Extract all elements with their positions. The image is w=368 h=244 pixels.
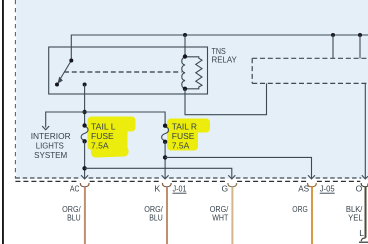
svg-text:TAIL L: TAIL L	[91, 121, 116, 131]
svg-text:YEL: YEL	[348, 212, 363, 222]
connector cup AC	[80, 183, 89, 187]
arrow into G	[228, 175, 235, 179]
node: coil bottom	[183, 87, 187, 91]
svg-text:LIGHTS: LIGHTS	[36, 141, 64, 151]
svg-text:RELAY: RELAY	[212, 55, 238, 65]
INTERIOR LIGHTS SYSTEM label	[31, 131, 71, 160]
connector cup G	[228, 183, 237, 187]
svg-text:BLU: BLU	[67, 212, 81, 222]
adjacent system dashed border	[15, 180, 360, 182]
node: K branch junction	[163, 155, 167, 159]
wire: switch output	[84, 85, 86, 126]
svg-text:FUSE: FUSE	[91, 131, 114, 141]
terminal labels	[70, 183, 363, 193]
J-01 underline	[173, 192, 187, 194]
svg-text:7.5A: 7.5A	[172, 141, 190, 151]
dashed module box	[252, 58, 368, 83]
wire: rail drop x360 to module	[359, 35, 361, 58]
arrow to interior lights	[42, 126, 49, 130]
wire ORG below AS	[311, 187, 313, 244]
system boundary panel (light blue)	[16, 0, 368, 179]
node: rail junction x333	[331, 33, 335, 37]
wire: TAIL R fuse down to K	[164, 142, 166, 178]
svg-text:INTERIOR: INTERIOR	[31, 131, 71, 141]
svg-text:L: L	[359, 228, 364, 238]
wire ORG/BLU below AC	[84, 187, 86, 244]
connector cup O	[361, 183, 368, 187]
system boundary dashed left border	[14, 0, 16, 179]
connector cup AS	[308, 183, 317, 187]
resistor in parallel with coil	[185, 57, 202, 89]
arrow into AC	[81, 175, 88, 179]
wire: rail drop x333 to module	[332, 35, 334, 58]
wire: branch to AS terminal	[165, 157, 311, 178]
relay switch contacts	[59, 61, 71, 81]
next module boundary line	[359, 241, 368, 243]
node: distribution junction	[82, 110, 86, 114]
fuse TAIL L	[81, 127, 88, 141]
relay coil (scalloped)	[182, 57, 185, 89]
J-05 underline	[320, 192, 335, 194]
node: rail junction x360	[358, 33, 362, 37]
wire: TAIL L fuse down to AC	[84, 141, 86, 178]
arrow into AS	[308, 175, 315, 179]
svg-text:AC: AC	[70, 183, 80, 193]
svg-text:FUSE: FUSE	[172, 131, 195, 141]
TNS relay box	[49, 47, 208, 94]
svg-text:BLU: BLU	[149, 212, 163, 222]
wire: to TAIL R fuse	[85, 112, 166, 126]
TAIL R FUSE 7.5A label	[172, 121, 197, 150]
svg-text:K: K	[155, 183, 161, 193]
wire ORG/WHT below G	[231, 187, 233, 244]
wire colour labels	[62, 204, 363, 223]
svg-text:O: O	[356, 183, 363, 193]
arrow into O	[362, 175, 368, 179]
node: coil top	[183, 54, 187, 58]
node: AC branch junction	[82, 166, 86, 170]
svg-text:J-01: J-01	[173, 183, 187, 193]
connector cup K	[162, 183, 171, 187]
wire ORG/BLU below K	[166, 187, 168, 244]
TAIL L FUSE 7.5A label	[91, 121, 116, 150]
connector cup L	[361, 238, 365, 241]
wire: top supply rail	[71, 35, 368, 61]
svg-text:7.5A: 7.5A	[91, 141, 109, 151]
svg-text:TAIL R: TAIL R	[172, 121, 197, 131]
svg-text:WHT: WHT	[212, 212, 228, 222]
wire BLK/YEL below O	[365, 187, 367, 238]
node: rail junction above coil	[183, 33, 187, 37]
highlighter TAIL R FUSE	[167, 119, 210, 151]
highlighter TAIL L FUSE	[88, 117, 136, 158]
svg-text:G: G	[221, 183, 228, 193]
svg-text:SYSTEM: SYSTEM	[34, 150, 67, 160]
svg-text:J-05: J-05	[320, 183, 335, 193]
TNS RELAY label	[212, 46, 238, 65]
wire: to interior lights system	[46, 112, 85, 128]
wire: rail to relay coil	[184, 35, 186, 57]
wire: coil bottom to module box	[185, 83, 267, 114]
page edge line	[2, 0, 4, 244]
system boundary dashed bottom border	[15, 177, 361, 179]
arrow into K	[162, 175, 169, 179]
svg-text:ORG: ORG	[292, 204, 308, 214]
fuse TAIL R	[162, 127, 169, 141]
mechanical linkage (dashed)	[64, 71, 182, 73]
wire: module to terminal O	[364, 83, 366, 178]
svg-text:AS: AS	[298, 183, 309, 193]
wire: branch to G terminal	[85, 168, 232, 178]
